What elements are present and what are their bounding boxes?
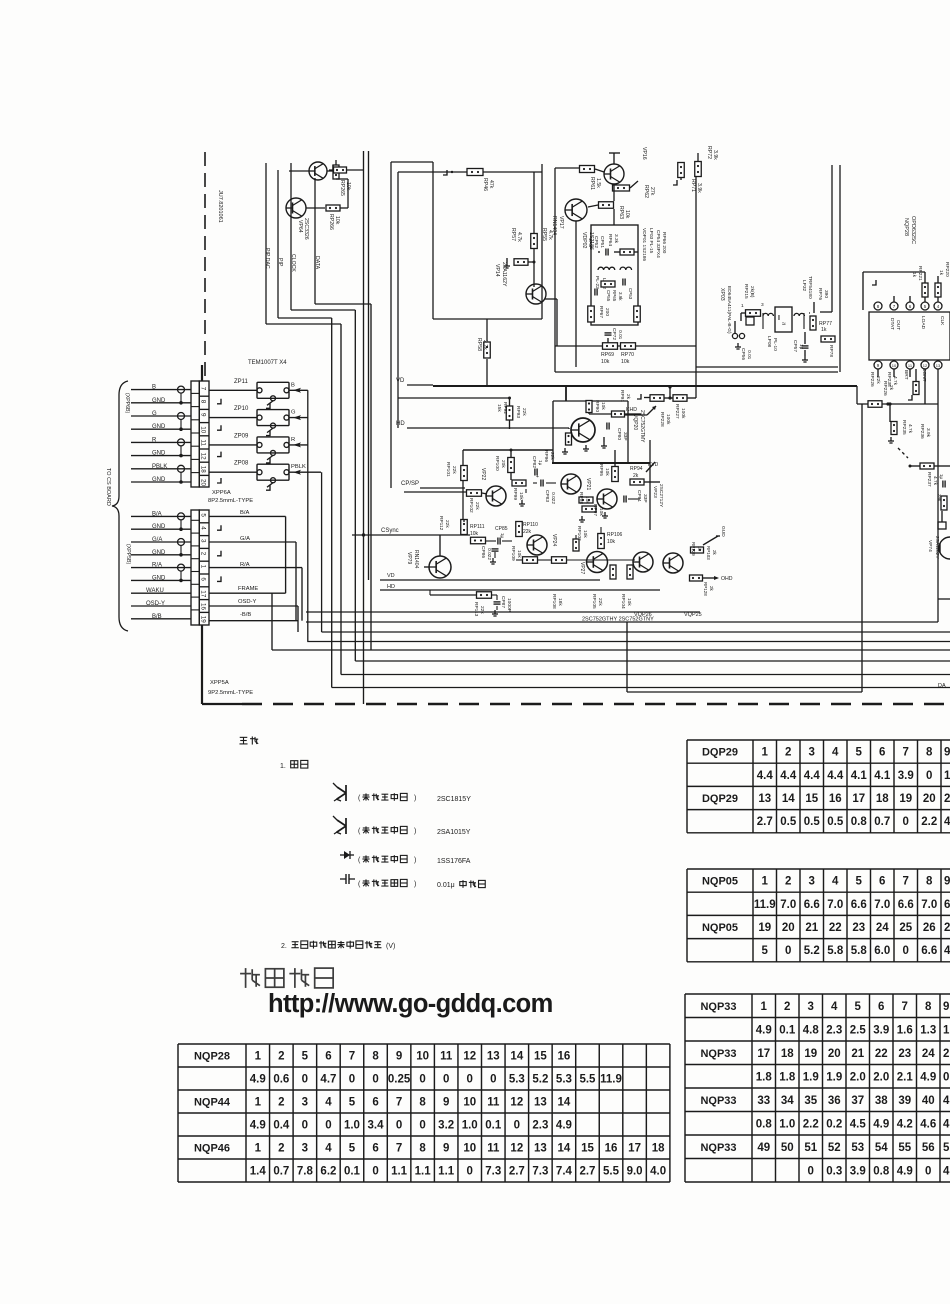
svg-text:55: 55 — [898, 1142, 911, 1154]
label RP128 2k — [703, 582, 714, 596]
svg-text:0.022: 0.022 — [550, 492, 556, 504]
svg-text:0.8: 0.8 — [873, 1165, 890, 1177]
pin number 16 — [200, 603, 207, 611]
svg-text:21: 21 — [851, 1048, 864, 1060]
svg-text:2SC1815Y: 2SC1815Y — [437, 796, 471, 803]
svg-text:5.8: 5.8 — [851, 945, 868, 957]
resistor RP55 4.7k — [531, 172, 538, 249]
svg-text:OSD-Y: OSD-Y — [238, 599, 256, 605]
svg-text:4: 4 — [831, 1001, 838, 1013]
connector XPP6A pin 8 signal GND — [131, 393, 221, 405]
resistor RP99 base — [562, 433, 572, 454]
transistor VQP26 pair — [633, 552, 653, 572]
svg-text:RP102: RP102 — [468, 498, 474, 513]
svg-text:10k: 10k — [582, 530, 588, 538]
svg-text:CLK: CLK — [939, 316, 945, 326]
label RP92 15k — [496, 402, 508, 414]
label RP97 10k — [592, 504, 604, 516]
svg-text:22k: 22k — [549, 452, 555, 460]
svg-text:9: 9 — [877, 363, 880, 368]
svg-text:1.6: 1.6 — [897, 1024, 913, 1036]
pin number 18 — [200, 466, 207, 474]
label RP108 18k — [551, 594, 563, 609]
svg-text:TRF54180: TRF54180 — [807, 276, 813, 299]
svg-text:XP03: XP03 — [719, 288, 725, 301]
svg-text:4.7k: 4.7k — [932, 476, 938, 486]
label VP79 RN1404 — [406, 550, 419, 569]
label PIP DAC — [264, 248, 270, 269]
svg-text:9.0: 9.0 — [627, 1166, 643, 1178]
svg-text:RP113: RP113 — [473, 602, 479, 617]
label RP58 2.2k — [476, 338, 488, 351]
svg-text:10: 10 — [416, 1051, 429, 1063]
label RP62 27k — [643, 185, 655, 198]
svg-text:37: 37 — [851, 1095, 864, 1107]
wire bus y641.5 — [307, 641, 950, 643]
svg-text:5: 5 — [200, 513, 207, 517]
svg-text:49: 49 — [757, 1142, 770, 1154]
svg-text:0: 0 — [325, 1120, 331, 1132]
svg-text:1.1: 1.1 — [391, 1166, 408, 1178]
resistor RP109b — [538, 557, 635, 564]
label TO CS BOARD — [105, 468, 111, 506]
svg-text:16: 16 — [829, 793, 842, 805]
svg-text:22: 22 — [875, 1048, 888, 1060]
svg-text:7.4: 7.4 — [556, 1166, 573, 1178]
svg-text:4: 4 — [200, 526, 207, 530]
label RP265 10k — [339, 180, 351, 196]
svg-text:1: 1 — [761, 1001, 768, 1013]
svg-text:17: 17 — [757, 1048, 770, 1060]
svg-text:12: 12 — [510, 1097, 523, 1109]
svg-text:RP227: RP227 — [674, 404, 680, 419]
pin 5 circle — [921, 302, 929, 310]
resistor RP221 1k — [922, 272, 928, 302]
transistor VP17 RN1404 — [565, 199, 587, 221]
svg-text:RP61: RP61 — [589, 177, 595, 190]
svg-text:3.9k: 3.9k — [696, 183, 702, 193]
switch ZP11 — [209, 382, 308, 408]
svg-text:1.8: 1.8 — [756, 1071, 773, 1083]
wire rail RP46 feed — [398, 172, 467, 428]
label RP221 1k — [911, 266, 923, 281]
svg-text:1μ: 1μ — [798, 344, 804, 350]
svg-text:RP235: RP235 — [901, 420, 907, 435]
svg-text:1.5k: 1.5k — [595, 178, 601, 188]
svg-text:3.9: 3.9 — [850, 1165, 866, 1177]
resistor RP77 1k — [810, 316, 816, 330]
svg-text:56: 56 — [922, 1142, 935, 1154]
resistor RP66 200 — [634, 306, 641, 322]
svg-text:VP14: VP14 — [494, 264, 500, 277]
wire XPP5A stem — [201, 365, 203, 704]
svg-text:0.8: 0.8 — [756, 1118, 773, 1130]
svg-text:35: 35 — [804, 1095, 817, 1107]
svg-text:7.0: 7.0 — [874, 899, 890, 911]
svg-text:CP80: CP80 — [616, 428, 622, 440]
svg-text:22k: 22k — [479, 606, 485, 614]
label NQP28 OPD6325C — [903, 216, 916, 244]
svg-text:RP107: RP107 — [576, 526, 582, 541]
svg-text:0: 0 — [903, 945, 909, 957]
svg-text:22: 22 — [829, 922, 842, 934]
label RP100 20k — [494, 456, 506, 471]
svg-text:VP79: VP79 — [406, 552, 412, 564]
svg-text:8: 8 — [926, 747, 933, 759]
svg-text:2SC3326: 2SC3326 — [303, 218, 309, 240]
svg-text:1.0: 1.0 — [344, 1120, 360, 1132]
resistor RP220 1k — [935, 276, 941, 302]
svg-text:7.0: 7.0 — [921, 899, 937, 911]
svg-text:5: 5 — [349, 1097, 356, 1109]
svg-text:23: 23 — [852, 922, 865, 934]
label ZP11 — [234, 379, 249, 385]
label VDP01 right cluster — [641, 228, 667, 261]
svg-text:RP266: RP266 — [328, 214, 334, 230]
svg-text:+: + — [536, 474, 539, 480]
svg-text:100k: 100k — [680, 408, 686, 419]
svg-text:CP53: CP53 — [628, 288, 633, 300]
svg-text:RP104: RP104 — [620, 594, 626, 609]
svg-text:ZP08: ZP08 — [234, 461, 249, 467]
svg-text:PIP: PIP — [277, 258, 283, 267]
svg-text:3: 3 — [302, 1097, 308, 1109]
resistor RP265 10k — [327, 160, 339, 179]
svg-text:(: ( — [358, 881, 361, 888]
svg-text:40: 40 — [922, 1095, 935, 1107]
svg-text:(V): (V) — [386, 943, 395, 950]
svg-text:3.2: 3.2 — [438, 1120, 454, 1132]
svg-text:33: 33 — [757, 1095, 770, 1107]
svg-text:16: 16 — [200, 603, 207, 611]
svg-text:1k: 1k — [821, 327, 827, 333]
svg-text:4: 4 — [937, 304, 940, 309]
svg-text:2k: 2k — [712, 550, 717, 556]
svg-text:B/A: B/A — [240, 510, 249, 516]
svg-text:RP106: RP106 — [607, 532, 623, 538]
svg-text:0: 0 — [349, 1074, 355, 1086]
svg-text:33P: 33P — [642, 494, 648, 503]
label VDP01 cluster — [587, 234, 619, 249]
label RP110 22k — [523, 522, 538, 535]
svg-text:9P2.5mmL-TYPE: 9P2.5mmL-TYPE — [208, 690, 253, 696]
svg-text:VDP01 1S2186: VDP01 1S2186 — [641, 228, 647, 261]
capacitor CP87 1000P — [491, 595, 501, 616]
node R — [291, 437, 295, 443]
svg-text:0.01: 0.01 — [617, 330, 623, 340]
svg-text:0: 0 — [372, 1166, 378, 1178]
wire CP/SP rail — [420, 487, 465, 489]
label RP77 1k — [819, 321, 832, 333]
svg-text:3: 3 — [761, 302, 764, 308]
node FRAME — [209, 586, 286, 650]
svg-text:1.: 1. — [280, 763, 286, 770]
svg-text:RP90: RP90 — [594, 400, 600, 412]
svg-text:2: 2 — [785, 747, 791, 759]
svg-text:2k: 2k — [625, 394, 631, 400]
svg-text:7.3: 7.3 — [532, 1166, 548, 1178]
label VP22 — [480, 468, 486, 480]
svg-text:13: 13 — [487, 1051, 500, 1063]
label RP63 10k — [618, 206, 630, 219]
svg-text:2: 2 — [944, 922, 950, 934]
svg-text:1.3: 1.3 — [920, 1024, 936, 1036]
svg-text:HD: HD — [396, 421, 405, 427]
svg-text:1000P: 1000P — [506, 598, 512, 612]
svg-text:FRAME: FRAME — [238, 586, 258, 592]
resistor RP235 4.7k — [888, 402, 897, 443]
svg-text:12: 12 — [463, 1051, 476, 1063]
svg-text:VP21: VP21 — [585, 478, 591, 490]
resistor RP93 22k — [398, 397, 513, 430]
svg-text:17: 17 — [200, 590, 207, 598]
node G — [291, 410, 296, 416]
pin 3 — [761, 302, 764, 308]
svg-text:11: 11 — [487, 1097, 500, 1109]
svg-text:5: 5 — [856, 747, 863, 759]
svg-text:RP93: RP93 — [515, 406, 521, 418]
svg-text:0.3: 0.3 — [826, 1165, 842, 1177]
resistor RP100 20k — [508, 449, 515, 481]
svg-text:7: 7 — [200, 387, 207, 391]
svg-text:VDP02: VDP02 — [581, 232, 587, 249]
label RP236 3.9k — [919, 424, 931, 439]
svg-text:34: 34 — [781, 1095, 794, 1107]
svg-text:CP72: CP72 — [611, 328, 617, 340]
connector XPP6A pin 11 signal R — [131, 437, 191, 446]
svg-text:4.7k: 4.7k — [907, 424, 913, 434]
label RP235 4.7k — [901, 420, 913, 435]
svg-text:8: 8 — [926, 876, 933, 888]
svg-text:(: ( — [358, 857, 361, 864]
svg-text:5.3: 5.3 — [509, 1074, 525, 1086]
svg-text:36: 36 — [828, 1095, 841, 1107]
svg-text:RP69: RP69 — [601, 352, 614, 358]
label RP228 100k — [659, 412, 671, 427]
node OSD-Y — [209, 599, 298, 632]
switch ZP10 — [209, 410, 308, 436]
label RP72 3.9k — [706, 146, 718, 160]
label RP112 22k — [438, 516, 450, 531]
svg-text:6: 6 — [944, 899, 950, 911]
label CONT — [921, 368, 927, 382]
svg-text:JU7.8201061: JU7.8201061 — [217, 190, 223, 223]
svg-text:39: 39 — [898, 1095, 911, 1107]
svg-text:8: 8 — [877, 304, 880, 309]
svg-text:11: 11 — [487, 1143, 500, 1155]
svg-text:RP58: RP58 — [476, 338, 482, 351]
svg-text:10k: 10k — [334, 216, 340, 225]
svg-text:20: 20 — [200, 479, 207, 487]
svg-text:4.7k: 4.7k — [892, 376, 898, 386]
transistor VP74 2SA1162Y — [939, 537, 950, 559]
svg-text:26: 26 — [923, 922, 936, 934]
svg-text:VD: VD — [387, 573, 395, 579]
connector XPP6A pin 18 signal PBLK — [131, 464, 191, 473]
svg-text:4.4: 4.4 — [804, 770, 821, 782]
svg-text:24: 24 — [922, 1048, 935, 1060]
svg-text:5.2: 5.2 — [532, 1074, 548, 1086]
svg-text:4.9: 4.9 — [250, 1074, 266, 1086]
svg-text:20: 20 — [782, 922, 795, 934]
svg-text:14: 14 — [558, 1143, 571, 1155]
label RP237 4.7k — [926, 472, 938, 487]
pin 13 circle — [934, 361, 942, 369]
label CP85 1u — [495, 526, 508, 539]
pin number 17 — [200, 590, 207, 598]
wire VD rail2 — [380, 579, 600, 581]
node B/A — [209, 510, 286, 593]
svg-text:6.6: 6.6 — [851, 899, 867, 911]
svg-text:4.9: 4.9 — [250, 1120, 266, 1132]
svg-text:CP83: CP83 — [544, 490, 550, 502]
wire XP03 left vertical — [695, 177, 697, 398]
svg-text:2.2: 2.2 — [803, 1118, 819, 1130]
svg-text:LP32: LP32 — [801, 280, 807, 292]
svg-text:200: 200 — [604, 308, 610, 316]
svg-text:0: 0 — [808, 1165, 814, 1177]
svg-text:390: 390 — [823, 290, 829, 298]
svg-text:RP100: RP100 — [494, 456, 500, 471]
label VP27 — [579, 562, 585, 574]
svg-text:NQP33: NQP33 — [700, 1095, 736, 1107]
capacitor CP83 0.022 — [533, 474, 556, 487]
wire bottom right box — [938, 598, 950, 600]
svg-text:9: 9 — [943, 1001, 949, 1013]
svg-text:15: 15 — [805, 793, 818, 805]
resistor RP106 10k — [598, 527, 605, 549]
svg-text:PIP DAC: PIP DAC — [264, 248, 270, 269]
svg-text:27k: 27k — [649, 187, 655, 196]
svg-text:0.25: 0.25 — [388, 1074, 411, 1086]
svg-text:5: 5 — [349, 1143, 356, 1155]
label CSync rail — [381, 528, 399, 534]
node R/A — [209, 562, 302, 621]
label DAT — [938, 683, 946, 689]
svg-text:RP55: RP55 — [541, 228, 547, 241]
svg-text:9: 9 — [396, 1051, 402, 1063]
svg-text:1μ: 1μ — [537, 460, 543, 466]
svg-text:1: 1 — [255, 1143, 262, 1155]
wire bus y692 — [627, 622, 862, 692]
label VP24 — [551, 534, 557, 546]
label ZP10 — [234, 406, 249, 412]
svg-text:0.2: 0.2 — [826, 1118, 842, 1130]
pin 4 circle — [934, 302, 942, 310]
svg-text:NQP05: NQP05 — [702, 922, 738, 934]
label ZP09 — [234, 433, 249, 439]
svg-text:19: 19 — [804, 1048, 817, 1060]
svg-text:): ) — [414, 828, 416, 835]
label VDP02 1S2186 — [581, 232, 594, 250]
svg-text:3.9k: 3.9k — [618, 292, 623, 301]
svg-text:2.2k: 2.2k — [482, 340, 488, 350]
label DATA — [314, 256, 320, 270]
transistor VP79 RN1404 — [424, 535, 451, 578]
svg-text:RP111: RP111 — [470, 524, 485, 530]
transistor VP65 top — [289, 162, 327, 180]
svg-text:10: 10 — [892, 363, 897, 368]
label RP107 10k — [576, 526, 588, 541]
pin number 19 — [200, 616, 207, 624]
label DTAT OUT — [889, 318, 901, 330]
svg-text:0.5: 0.5 — [827, 816, 844, 828]
svg-text:RP67: RP67 — [598, 306, 604, 318]
node X right — [938, 511, 946, 529]
svg-text:9: 9 — [443, 1143, 449, 1155]
label XPP5A — [208, 680, 253, 696]
wire long vertical bus A — [363, 151, 365, 704]
svg-text:-B/B: -B/B — [240, 612, 251, 618]
svg-text:OUT: OUT — [895, 320, 901, 330]
wire DATA vertical — [315, 178, 371, 650]
op-amp IC NQP28 box — [869, 312, 950, 360]
svg-text:8: 8 — [925, 1001, 932, 1013]
svg-text:14: 14 — [558, 1097, 571, 1109]
svg-text:VP17: VP17 — [558, 216, 564, 229]
svg-text:4.: 4. — [943, 1165, 950, 1177]
node -B/B — [209, 612, 298, 621]
resistor RP58 2.2k — [484, 319, 491, 386]
wire board boundary dashed — [204, 152, 206, 381]
wire XP03 right pair — [820, 165, 840, 372]
svg-text:LP08: LP08 — [766, 336, 772, 348]
svg-text:RP112: RP112 — [438, 516, 444, 531]
svg-text:5: 5 — [943, 1142, 950, 1154]
capacitor CP86 0.022 — [490, 549, 499, 564]
svg-text:13: 13 — [936, 363, 941, 368]
svg-text:VP16: VP16 — [641, 147, 647, 160]
pin 7 circle — [890, 302, 898, 310]
svg-text:11.9: 11.9 — [600, 1074, 622, 1086]
wire ZP collector vertical — [307, 390, 309, 641]
wire IC top rail — [863, 272, 925, 310]
wire bus y661 — [355, 660, 950, 662]
resistor RP109 10k — [516, 557, 538, 564]
svg-text:25: 25 — [899, 922, 912, 934]
pin 9 circle — [874, 361, 882, 369]
svg-text:XPP6A: XPP6A — [212, 490, 231, 496]
svg-text:1: 1 — [200, 565, 207, 569]
resistor RP97 10k — [579, 506, 596, 522]
label RP98 10k — [578, 492, 590, 504]
svg-text:CP/SP: CP/SP — [401, 481, 419, 487]
capacitor legend 0.01u — [340, 874, 485, 889]
svg-text:ED645A411(PAL-B-G): ED645A411(PAL-B-G) — [726, 286, 732, 334]
svg-text:RP71: RP71 — [690, 179, 696, 192]
label RP102 22k — [468, 498, 480, 513]
label VD rail2 — [387, 573, 395, 579]
svg-text:RP57: RP57 — [510, 228, 516, 241]
svg-text:12: 12 — [200, 453, 207, 461]
wire VQP20 box — [553, 386, 628, 463]
label note 2 — [281, 941, 395, 950]
svg-text:DQP29: DQP29 — [702, 747, 738, 759]
label VP21 — [585, 478, 591, 490]
label RP111 10k — [470, 524, 485, 537]
svg-text:2: 2 — [278, 1143, 284, 1155]
svg-text:38: 38 — [875, 1095, 888, 1107]
svg-text:RP108: RP108 — [551, 594, 557, 609]
svg-text:): ) — [414, 857, 416, 864]
svg-text:0.5: 0.5 — [804, 816, 821, 828]
resistor RP215 — [741, 310, 761, 317]
svg-text:2k(B): 2k(B) — [749, 286, 755, 298]
resistor 39k right — [937, 494, 947, 510]
svg-text:4.1: 4.1 — [874, 770, 891, 782]
svg-text:1k: 1k — [697, 546, 702, 552]
label ZP08 — [234, 461, 249, 467]
